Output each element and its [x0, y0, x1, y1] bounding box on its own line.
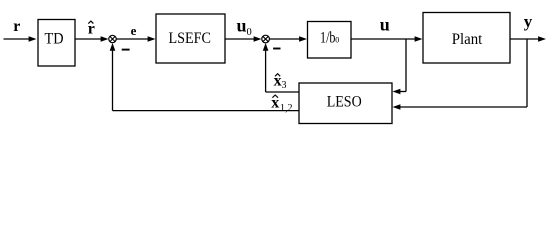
svg-text:1/b: 1/b [320, 30, 336, 47]
label r-hat [88, 20, 95, 37]
label x12-hat [271, 94, 292, 113]
wire Plant to output y [510, 36, 546, 42]
minus sign at J2 [273, 48, 280, 50]
label e [131, 23, 137, 38]
svg-text:3: 3 [282, 80, 287, 91]
label u0 [237, 16, 252, 39]
label u [380, 14, 390, 34]
block Plant [423, 13, 510, 64]
block LSEFC [156, 14, 225, 63]
wire J1 to LSEFC [116, 36, 155, 42]
summing junction J1 [109, 35, 116, 42]
svg-text:y: y [524, 12, 533, 31]
block TD [38, 20, 75, 67]
summing junction J2 [262, 35, 270, 43]
svg-text:TD: TD [45, 31, 64, 48]
svg-text:Plant: Plant [452, 31, 483, 48]
wire y branch down to LESO [393, 39, 528, 110]
wire u branch down to LESO [393, 39, 407, 94]
wire LSEFC to J2 [225, 36, 262, 42]
wire r input arrow [4, 36, 37, 42]
block 1/b0 [308, 22, 352, 59]
label x3-hat [274, 72, 287, 91]
svg-text:u: u [237, 16, 247, 36]
block LESO [299, 83, 392, 124]
svg-text:e: e [131, 23, 137, 38]
svg-text:LESO: LESO [327, 94, 362, 111]
svg-text:0: 0 [247, 27, 252, 38]
svg-text:u: u [380, 14, 390, 34]
svg-text:r: r [13, 18, 20, 35]
wire TD to J1 [75, 36, 109, 42]
wire 1/b0 to Plant [351, 36, 423, 42]
svg-text:1,2: 1,2 [280, 103, 293, 114]
label y [524, 12, 533, 31]
svg-text:LSEFC: LSEFC [168, 30, 211, 47]
wire J2 to 1/b0 [269, 36, 307, 42]
wire x3-hat from LESO to J2 [263, 43, 299, 92]
wire x12-hat from LESO to J1 [110, 43, 299, 111]
svg-text:0: 0 [335, 35, 339, 44]
label r [13, 18, 20, 35]
svg-text:x: x [274, 72, 282, 89]
minus sign at J1 [122, 49, 130, 51]
